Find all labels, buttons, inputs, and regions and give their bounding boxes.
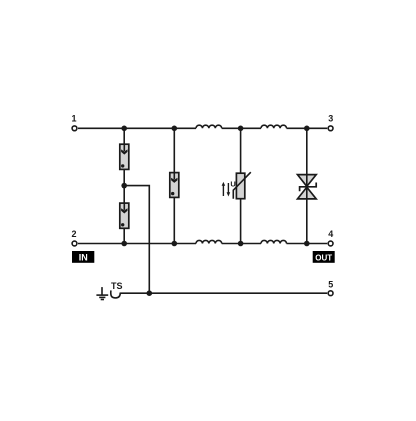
inductor L1 (top left coil) — [196, 125, 222, 128]
inductor L2 (top right coil) — [261, 125, 287, 128]
IN box — [72, 251, 94, 263]
junction dot top rail x=124 — [121, 126, 127, 132]
wire bottom rail left segment — [78, 243, 196, 245]
inductor L4 (bottom right coil) — [261, 240, 287, 243]
inductor L3 (bottom left coil) — [196, 240, 222, 243]
svg-text:1: 1 — [71, 114, 76, 124]
OUT box — [313, 251, 335, 263]
junction dot bottom rail x=240 — [238, 241, 244, 247]
svg-text:5: 5 — [328, 280, 333, 290]
terminal 2 — [72, 241, 77, 246]
disconnect contact arc — [111, 290, 121, 298]
wire TS line to terminal 5 — [120, 292, 327, 294]
wire bottom rail right segment — [287, 243, 328, 245]
surge arrester F3 (middle) — [170, 173, 179, 198]
wire bottom rail middle segment — [222, 243, 261, 245]
surge arrester F1 (upper gas discharge tube) — [120, 144, 129, 169]
surge arrester F2 (lower gas discharge tube) — [120, 203, 129, 228]
junction dot bottom rail x=307 — [304, 241, 310, 247]
svg-text:OUT: OUT — [315, 253, 332, 262]
voltage arrows and U label for varistor — [222, 179, 236, 196]
varistor R1 — [233, 172, 251, 199]
junction dot top rail x=240 — [238, 126, 244, 132]
wire varistor branch vertical at x=240.6 — [240, 128, 242, 243]
wire arrester branch vertical at x=124.2 — [123, 128, 125, 243]
svg-text:3: 3 — [328, 114, 333, 124]
svg-text:TS: TS — [111, 281, 123, 291]
TVS diode V1 (bidirectional suppressor) — [298, 175, 317, 199]
junction dot bottom rail x=174 — [172, 241, 178, 247]
terminal 5 — [328, 291, 333, 296]
wire top rail right segment — [287, 127, 328, 129]
svg-text:2: 2 — [71, 229, 76, 239]
junction dot top rail x=174 — [172, 126, 178, 132]
ground — [96, 287, 108, 299]
terminal 1 — [72, 126, 77, 131]
junction dot on TS line — [147, 290, 153, 296]
svg-text:IN: IN — [79, 252, 88, 262]
svg-text:U: U — [230, 179, 235, 188]
svg-text:4: 4 — [328, 229, 333, 239]
junction dot between arresters — [121, 183, 127, 189]
junction dot bottom rail x=124 — [121, 241, 127, 247]
wire TVS branch vertical at x=306.8 — [306, 128, 308, 243]
terminal 4 — [328, 241, 333, 246]
wire arrester branch vertical at x=174.3 — [173, 128, 175, 243]
junction dot top rail x=307 — [304, 126, 310, 132]
wire top rail left segment — [78, 127, 196, 129]
terminal 3 — [328, 126, 333, 131]
wire center tap from between arresters to TS line — [124, 186, 149, 294]
wire top rail middle segment — [222, 127, 261, 129]
